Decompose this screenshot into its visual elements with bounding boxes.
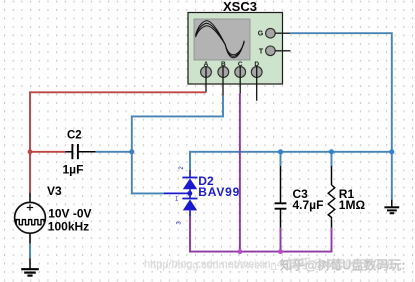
pin stub G — [275, 32, 290, 34]
junction purple at scope C drop — [237, 249, 242, 254]
diode pair D2 BAV99 — [164, 170, 198, 217]
resistor R1 — [328, 166, 335, 227]
pin stub D — [256, 67, 258, 101]
svg-text:T: T — [259, 48, 264, 55]
svg-text:V3: V3 — [47, 184, 62, 198]
svg-text:100kHz: 100kHz — [48, 219, 89, 233]
pin stub A — [205, 67, 207, 93]
capacitor C3 — [275, 166, 287, 228]
wire purple net D2 bottom / scope C / C3 bottom / R1 bottom — [190, 94, 332, 252]
junction blue at C3 top — [278, 149, 283, 154]
svg-text:G: G — [258, 31, 264, 38]
pin stub C — [239, 67, 241, 94]
wire blue V3 minus to ground — [29, 244, 31, 259]
junction blue node1 — [129, 149, 134, 154]
wire blue junction to scope B — [132, 96, 223, 152]
wire blue C2 right to junction — [96, 151, 132, 153]
terminal C — [235, 61, 246, 78]
wire blue junction to D2 midpoint — [132, 152, 165, 194]
svg-text:BAV99: BAV99 — [198, 185, 240, 199]
pin stub T — [275, 50, 290, 52]
voltage source V3 — [15, 193, 46, 244]
junction red at C2 tap — [28, 149, 33, 154]
capacitor C2 — [65, 144, 95, 159]
junction purple at C3 bottom — [278, 249, 283, 254]
svg-text:1µF: 1µF — [63, 163, 84, 177]
terminal T — [259, 46, 275, 56]
junction blue at R1 top — [329, 149, 334, 154]
terminal G — [258, 28, 275, 38]
ground right — [384, 200, 399, 214]
svg-text:http://blog.csdn.net/weixin: http://blog.csdn.net/weixin — [150, 260, 277, 272]
svg-text:4.7µF: 4.7µF — [293, 198, 324, 212]
junction blue at ground tap — [389, 149, 394, 154]
oscilloscope XSC3 body — [188, 13, 283, 85]
svg-text:1MΩ: 1MΩ — [339, 198, 366, 212]
pin stub B — [222, 67, 224, 96]
terminal D — [251, 61, 262, 78]
wire blue net2 D2 top / C3 / R1 / ground / scope G — [190, 33, 392, 199]
terminal A — [201, 61, 212, 78]
ground left — [21, 258, 39, 275]
watermark zhihu — [279, 256, 405, 273]
wire red net V3+ / C2 / scope A — [30, 92, 206, 192]
svg-text:C2: C2 — [67, 130, 82, 142]
svg-text:知乎@4350987060: 知乎@4350987060 — [286, 256, 394, 271]
svg-text:10V -0V: 10V -0V — [48, 207, 91, 221]
terminal B — [218, 61, 229, 78]
scope screen waveform — [196, 21, 245, 58]
watermark csdn url — [144, 259, 295, 272]
